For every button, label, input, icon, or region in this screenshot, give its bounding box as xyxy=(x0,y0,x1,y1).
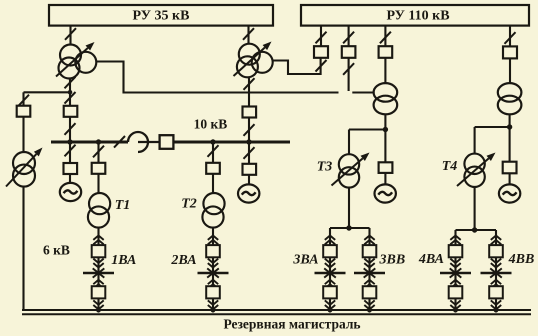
svg-text:Т1: Т1 xyxy=(115,198,131,213)
svg-text:3ВА: 3ВА xyxy=(292,253,318,268)
svg-text:6 кВ: 6 кВ xyxy=(43,243,70,258)
svg-text:1ВА: 1ВА xyxy=(111,253,136,268)
svg-text:10 кВ: 10 кВ xyxy=(194,117,228,132)
svg-text:Т2: Т2 xyxy=(181,197,197,212)
svg-text:РУ 110 кВ: РУ 110 кВ xyxy=(386,8,449,23)
svg-text:2ВА: 2ВА xyxy=(170,253,196,268)
svg-text:Т4: Т4 xyxy=(442,159,458,174)
svg-text:Резервная магистраль: Резервная магистраль xyxy=(223,317,360,332)
svg-text:3ВВ: 3ВВ xyxy=(379,253,406,268)
svg-text:4ВА: 4ВА xyxy=(418,252,444,267)
svg-text:Т3: Т3 xyxy=(317,160,333,175)
svg-text:4ВВ: 4ВВ xyxy=(508,252,535,267)
svg-text:РУ 35 кВ: РУ 35 кВ xyxy=(133,8,190,23)
